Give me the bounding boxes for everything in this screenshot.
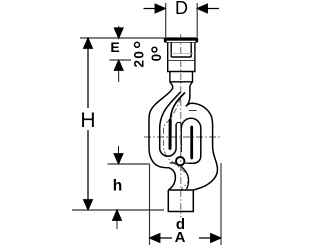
socket internal line xyxy=(168,53,195,55)
dimension A xyxy=(150,234,221,243)
svg-text:h: h xyxy=(113,178,122,195)
channel bottom line left of circle xyxy=(170,162,176,164)
n channel right leg xyxy=(189,128,201,163)
svg-text:H: H xyxy=(80,109,95,132)
degree circle of 20 xyxy=(135,42,140,47)
dimension h xyxy=(113,146,123,229)
extension line A left xyxy=(149,164,151,245)
socket internal line (E stop) xyxy=(168,60,195,62)
vertical centerline xyxy=(180,34,182,218)
socket lower step xyxy=(170,72,193,86)
svg-text:0: 0 xyxy=(149,54,164,62)
n channel apex xyxy=(181,118,201,128)
partition bar right xyxy=(190,127,193,158)
svg-text:20: 20 xyxy=(132,50,147,68)
horizontal centerline xyxy=(144,136,220,138)
dip tube partition xyxy=(170,93,185,121)
dimension D xyxy=(144,4,220,13)
svg-text:D: D xyxy=(175,0,188,18)
outlet socket xyxy=(168,190,193,212)
inlet socket rim xyxy=(164,37,198,42)
reference line top (H/E datum) xyxy=(80,37,165,39)
U channel left wall xyxy=(160,124,176,156)
wire xyxy=(198,8,220,10)
wire xyxy=(144,8,161,10)
reference line bottom (H/h datum) xyxy=(72,209,164,211)
trap body outer outline left xyxy=(149,86,175,190)
reference line E bottom xyxy=(110,59,132,61)
divider cap xyxy=(176,122,181,125)
n channel left leg xyxy=(180,125,182,152)
channel bottom line right of circle xyxy=(185,162,189,164)
dimension E xyxy=(114,26,123,82)
flow centerline (bend axis) xyxy=(164,97,189,190)
extension line A right xyxy=(220,163,222,245)
extension line left of D xyxy=(165,3,167,37)
drain circle xyxy=(176,157,184,165)
degree circle of 0 xyxy=(152,47,157,52)
svg-text:E: E xyxy=(110,39,119,55)
trap body outer outline right xyxy=(186,86,218,190)
inlet socket body xyxy=(168,43,195,72)
extension line right of D xyxy=(196,3,198,37)
outlet inner S wall xyxy=(181,167,189,190)
reference line h top xyxy=(108,163,150,165)
inlet inner bend wall xyxy=(160,92,181,130)
dimension H xyxy=(84,38,93,210)
svg-text:d: d xyxy=(176,216,185,233)
n channel apex tick xyxy=(189,110,197,112)
